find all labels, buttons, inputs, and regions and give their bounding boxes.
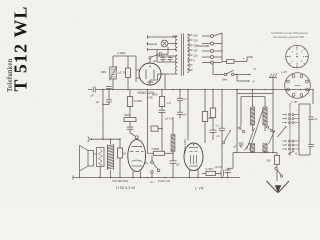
svg-text:L 757: L 757 <box>291 100 298 104</box>
wire lamp rail top <box>148 36 178 38</box>
wire <box>129 107 131 118</box>
wire heater to tube <box>158 73 178 75</box>
svg-text:L-Pf: L-Pf <box>282 70 287 74</box>
potentiometer P1 <box>110 67 116 79</box>
capacitor C grid2 <box>129 122 131 127</box>
switch arm bank <box>278 127 287 138</box>
svg-text:240: 240 <box>193 33 198 37</box>
capacitor C small bus <box>106 85 112 87</box>
bus2 junction dots <box>79 177 81 179</box>
tube V1 anode wire <box>161 73 165 75</box>
capacitor C heater 2 <box>169 56 171 57</box>
arrow E <box>288 151 294 154</box>
mains neutral wire <box>236 74 238 76</box>
svg-text:Netz: Netz <box>222 78 228 82</box>
svg-text:110: 110 <box>193 53 198 57</box>
capacitor C x222 <box>221 90 223 129</box>
svg-text:125: 125 <box>193 48 198 52</box>
contact bank upper <box>282 114 286 116</box>
tube V1 electrodes <box>145 70 147 80</box>
svg-text:μF 0,5: μF 0,5 <box>215 166 223 169</box>
wire vert x103 <box>102 90 104 140</box>
svg-text:P≈4Ω 1,05: P≈4Ω 1,05 <box>158 180 170 183</box>
capacitor C rf small <box>239 142 244 144</box>
contact bank lower <box>282 140 286 142</box>
tube V3 electrodes <box>189 147 198 149</box>
svg-text:T 512 WL: T 512 WL <box>11 5 31 91</box>
resistor R x162 <box>161 90 163 97</box>
bus junction dots <box>102 89 104 91</box>
tube V2 pins <box>132 171 134 177</box>
voltage selector bus <box>214 33 222 36</box>
svg-text:TA: TA <box>145 161 149 165</box>
svg-text:des Gerätes gesehen 536: des Gerätes gesehen 536 <box>273 35 304 39</box>
transformer Tr core <box>180 34 182 76</box>
svg-text:μF: μF <box>91 94 95 98</box>
switch TA <box>151 155 153 161</box>
switch contacts mid <box>266 126 268 128</box>
tube V3 pins <box>189 170 191 178</box>
svg-text:5000: 5000 <box>152 93 158 96</box>
socket diagram 1 <box>286 45 309 68</box>
svg-text:0,1MΩ: 0,1MΩ <box>117 51 125 55</box>
wire rf loop outer <box>237 93 273 95</box>
choke coil x173 <box>172 117 174 135</box>
wire vert x313 cap <box>312 90 314 105</box>
transformer taps <box>188 34 193 36</box>
switch contacts left <box>238 127 240 129</box>
wire vert x120 <box>119 139 121 148</box>
svg-text:TFK RES 964: TFK RES 964 <box>112 179 129 183</box>
mains selector arm <box>196 45 209 47</box>
wire vert x188 <box>187 90 189 141</box>
resistor R cathode <box>202 172 206 174</box>
wire vert x290 <box>289 104 291 155</box>
wire to bus2 cap <box>232 153 234 169</box>
svg-text:E: E <box>296 152 298 156</box>
ground chassis <box>269 77 277 79</box>
svg-text:1500: 1500 <box>124 113 130 117</box>
svg-text:N: N <box>253 79 255 83</box>
tube V1 heater bracket <box>135 56 137 82</box>
svg-text:0,1: 0,1 <box>184 97 188 101</box>
svg-text:500: 500 <box>267 160 272 163</box>
wire lamp rail bottom <box>148 49 178 51</box>
switch arm arrows <box>244 144 250 151</box>
svg-text:μF: μF <box>153 60 156 63</box>
tube V1 RENS1204 <box>139 63 161 85</box>
speaker LS <box>88 151 94 167</box>
antenna symbol <box>267 181 278 193</box>
resistor R grid-leak <box>147 90 149 154</box>
socket diagram 2 <box>285 73 311 99</box>
output transformer winding <box>106 145 108 171</box>
tube V3 envelope <box>184 143 203 171</box>
transformer Tr secondary winding <box>188 34 190 73</box>
speaker ground stub <box>79 171 81 178</box>
capacitor C loop lower <box>308 144 314 146</box>
svg-text:Ω 450: Ω 450 <box>206 167 214 171</box>
resistor R x128 <box>127 56 129 68</box>
coil L1b <box>250 144 254 153</box>
transformer Tr primary-left winding <box>175 36 177 51</box>
svg-text:150: 150 <box>193 43 198 47</box>
svg-text:μF 0,5: μF 0,5 <box>166 117 174 121</box>
resistor R on x120 <box>117 148 122 158</box>
tube V2 top cap <box>135 136 138 139</box>
svg-text:H 92 5.3 W: H 92 5.3 W <box>116 186 135 190</box>
capacitor C bus-in <box>88 89 92 91</box>
svg-text:220: 220 <box>193 38 198 42</box>
field coil <box>97 148 105 167</box>
switch arm diag long <box>250 108 264 150</box>
component box small <box>151 126 158 131</box>
svg-text:μF: μF <box>96 100 100 104</box>
wire vert x241 <box>240 97 242 127</box>
capacitor C ta <box>172 153 174 160</box>
wire vert x273 <box>272 90 274 153</box>
svg-text:μF: μF <box>177 162 181 166</box>
capacitor C coupling <box>108 90 110 100</box>
wire vert x113 <box>112 56 114 67</box>
svg-text:L YR: L YR <box>195 186 204 191</box>
svg-text:0,2MΩ: 0,2MΩ <box>134 99 142 103</box>
resistor R x213 <box>212 90 214 109</box>
lamp La <box>147 42 149 45</box>
wire main bus <box>96 89 313 91</box>
svg-text:μF: μF <box>217 134 220 138</box>
capacitor C loop upper <box>308 116 314 118</box>
mains switch S <box>212 63 214 75</box>
switch arm x228 <box>224 131 231 142</box>
wire heater rails <box>157 55 177 57</box>
wire vert x237 <box>236 90 238 153</box>
coil L1a <box>252 90 254 108</box>
resistor R anode <box>129 90 131 97</box>
tube V2 envelope <box>128 140 146 172</box>
antenna branch <box>276 153 278 156</box>
resistor R 1500 <box>124 118 136 122</box>
tube V1 grid cap <box>149 59 151 63</box>
svg-text:1MΩ: 1MΩ <box>101 70 107 74</box>
svg-text:μF 10: μF 10 <box>119 71 126 75</box>
tube V2 electrodes <box>132 146 143 148</box>
svg-text:≈N: ≈N <box>253 67 256 71</box>
svg-text:1 W: 1 W <box>167 102 172 105</box>
svg-text:μF: μF <box>184 113 187 117</box>
wire loop right <box>299 103 310 105</box>
resistor R x205 <box>204 90 206 112</box>
coil L2a <box>264 97 266 108</box>
voltage selector contacts <box>202 35 210 37</box>
capacitor C x180 <box>179 90 181 99</box>
fuse Si <box>222 61 227 63</box>
wire grid top <box>113 55 136 57</box>
wire rf bottom <box>233 152 277 154</box>
svg-text:Skalenlp.: Skalenlp. <box>147 42 159 46</box>
svg-text:Schaltbild von der Röhrenseite: Schaltbild von der Röhrenseite <box>271 31 308 35</box>
wire bottom bus <box>73 177 240 179</box>
capacitor C heater 1 <box>162 56 164 57</box>
coil L2b <box>263 144 267 153</box>
svg-text:0,5MΩ: 0,5MΩ <box>152 147 160 151</box>
jack TA plug <box>88 137 90 142</box>
